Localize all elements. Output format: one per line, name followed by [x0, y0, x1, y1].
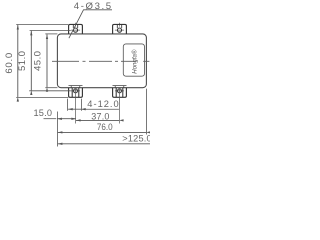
leader 4-dia3.5 [69, 10, 112, 38]
svg-text:37.0: 37.0 [91, 111, 109, 121]
centerline tab2 down [119, 88, 121, 123]
dim 51.0 extension top [30, 29, 71, 31]
dim 45.0 extension top [45, 33, 57, 35]
dim 37.0 line [76, 119, 119, 121]
svg-text:4-Ø3.5: 4-Ø3.5 [74, 1, 113, 12]
dim 45.0 extension bottom [45, 87, 57, 89]
centerline tab1 down [75, 88, 77, 123]
svg-text:60.0: 60.0 [4, 52, 15, 73]
dim 60.0 extension top [16, 23, 68, 25]
dim 51.0 extension bottom [29, 90, 71, 92]
dim >125.0 line [58, 143, 150, 145]
tab bottom-right [113, 86, 127, 98]
ext lines 4-12.0 [68, 99, 82, 111]
dim 4-12.0 line [68, 108, 81, 110]
centerline [52, 60, 149, 62]
dim 60.0 extension bottom [16, 97, 68, 99]
svg-text:Hongfa®: Hongfa® [131, 49, 138, 74]
svg-text:45.0: 45.0 [33, 51, 44, 71]
dim 76.0 line [58, 131, 146, 133]
tab top-right [113, 23, 127, 34]
svg-text:15.0: 15.0 [34, 108, 53, 118]
svg-text:76.0: 76.0 [97, 122, 113, 132]
tab top-left [69, 23, 83, 34]
svg-text:51.0: 51.0 [17, 51, 28, 71]
svg-text:4-12.0: 4-12.0 [87, 99, 119, 109]
dim 15.0 line [44, 118, 57, 120]
ext line body-right down [145, 89, 147, 135]
body outline [57, 34, 146, 88]
dim 51.0 line [30, 31, 32, 91]
dim 45.0 line [46, 34, 48, 87]
ext line body-left down [56, 112, 58, 147]
svg-text:>125.0: >125.0 [122, 133, 150, 143]
nameplate label [123, 44, 144, 76]
tab bottom-left [69, 86, 83, 98]
dim 60.0 line [17, 25, 19, 97]
